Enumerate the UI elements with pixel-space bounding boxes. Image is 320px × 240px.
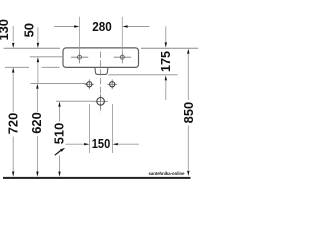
svg-text:510: 510 <box>52 123 66 145</box>
svg-text:280: 280 <box>92 20 112 34</box>
svg-text:150: 150 <box>92 137 111 151</box>
svg-text:130: 130 <box>0 19 11 41</box>
svg-text:620: 620 <box>30 112 44 134</box>
svg-text:175: 175 <box>159 51 173 72</box>
svg-text:850: 850 <box>182 102 196 124</box>
svg-text:720: 720 <box>7 113 21 135</box>
svg-text:50: 50 <box>23 23 37 38</box>
svg-text:santehnika-online: santehnika-online <box>149 171 186 176</box>
